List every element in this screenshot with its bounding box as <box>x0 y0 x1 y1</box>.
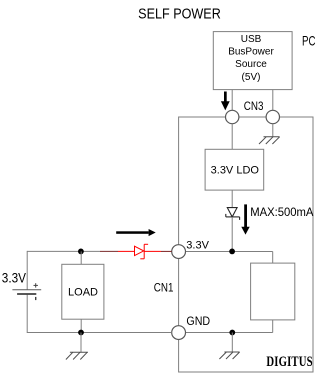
svg-text:MAX:500mA: MAX:500mA <box>250 206 313 219</box>
battery wire bottom <box>26 294 28 333</box>
left GND rail <box>27 332 172 334</box>
svg-text:USB: USB <box>241 34 262 45</box>
wire LOAD to GND rail <box>80 319 82 332</box>
wire zener to 3.3V rail <box>231 217 233 252</box>
svg-text:LOAD: LOAD <box>68 287 98 299</box>
wire junction to left ground <box>80 333 82 353</box>
connector pin CN1 3.3V <box>172 245 186 259</box>
svg-text:(5V): (5V) <box>242 72 261 83</box>
svg-text:CN1: CN1 <box>154 282 174 295</box>
ground left <box>66 352 88 359</box>
battery plate negative <box>17 293 36 295</box>
wire USB box to CN3 right pin <box>272 90 274 111</box>
ground at CN3-2 <box>259 137 280 144</box>
junction dot battery rail <box>78 249 84 255</box>
svg-text:PC: PC <box>302 34 316 49</box>
wire red dark to CN1 pin <box>161 250 172 252</box>
arrow MAX:500mA <box>241 204 249 234</box>
wire red to diode <box>118 250 135 252</box>
diode D1 schottky (red) <box>135 244 149 258</box>
svg-text:CN3: CN3 <box>244 100 264 113</box>
svg-text:GND: GND <box>186 316 210 329</box>
device block <box>251 263 295 320</box>
arrow current to CN1 <box>116 229 156 236</box>
svg-text:3.3V: 3.3V <box>2 269 27 285</box>
arrow current into CN3 <box>221 92 230 111</box>
svg-text:BusPower: BusPower <box>228 47 274 58</box>
svg-text:DIGITUS: DIGITUS <box>266 354 312 370</box>
zener diode D2 <box>226 208 240 220</box>
wire red dark segment <box>100 250 118 252</box>
connector pin CN3-2 <box>266 110 279 123</box>
load block <box>62 264 104 319</box>
svg-text:3.3V: 3.3V <box>186 239 209 251</box>
connector pin CN1 GND <box>172 326 186 340</box>
svg-text:SELF POWER: SELF POWER <box>138 4 221 21</box>
battery 3.3V left rail top <box>27 250 100 252</box>
connector pin CN3-1 <box>226 110 239 123</box>
svg-text:3.3V LDO: 3.3V LDO <box>211 164 260 176</box>
junction dot LOAD/GND <box>78 330 84 336</box>
wire CN3-1 to LDO <box>231 124 233 150</box>
board outline DIGITUS <box>179 117 313 372</box>
wire junction to ground <box>231 333 233 353</box>
battery plus sign <box>34 283 38 287</box>
svg-text:Source: Source <box>235 59 267 70</box>
battery wire top <box>26 251 28 290</box>
wire LDO to zener <box>231 190 233 208</box>
wire junction to LOAD <box>80 251 82 264</box>
3.3V rail inside board <box>179 251 273 253</box>
battery plate positive <box>12 289 41 291</box>
wire device bottom to GND rail <box>272 320 274 333</box>
box USB BusPower Source (5V) <box>213 32 292 90</box>
junction dot GND rail <box>229 330 235 336</box>
GND rail inside board <box>179 332 273 334</box>
ground inside board <box>219 352 239 359</box>
wire USB box to CN3 left pin <box>231 90 233 111</box>
battery minus mark <box>35 297 36 300</box>
wire rail to device top <box>272 252 274 264</box>
wire red diode to CN1 <box>144 250 161 252</box>
junction dot zener/3.3V rail <box>229 249 235 255</box>
regulator 3.3V LDO <box>205 149 264 190</box>
wire CN3-2 to ground <box>272 124 274 137</box>
